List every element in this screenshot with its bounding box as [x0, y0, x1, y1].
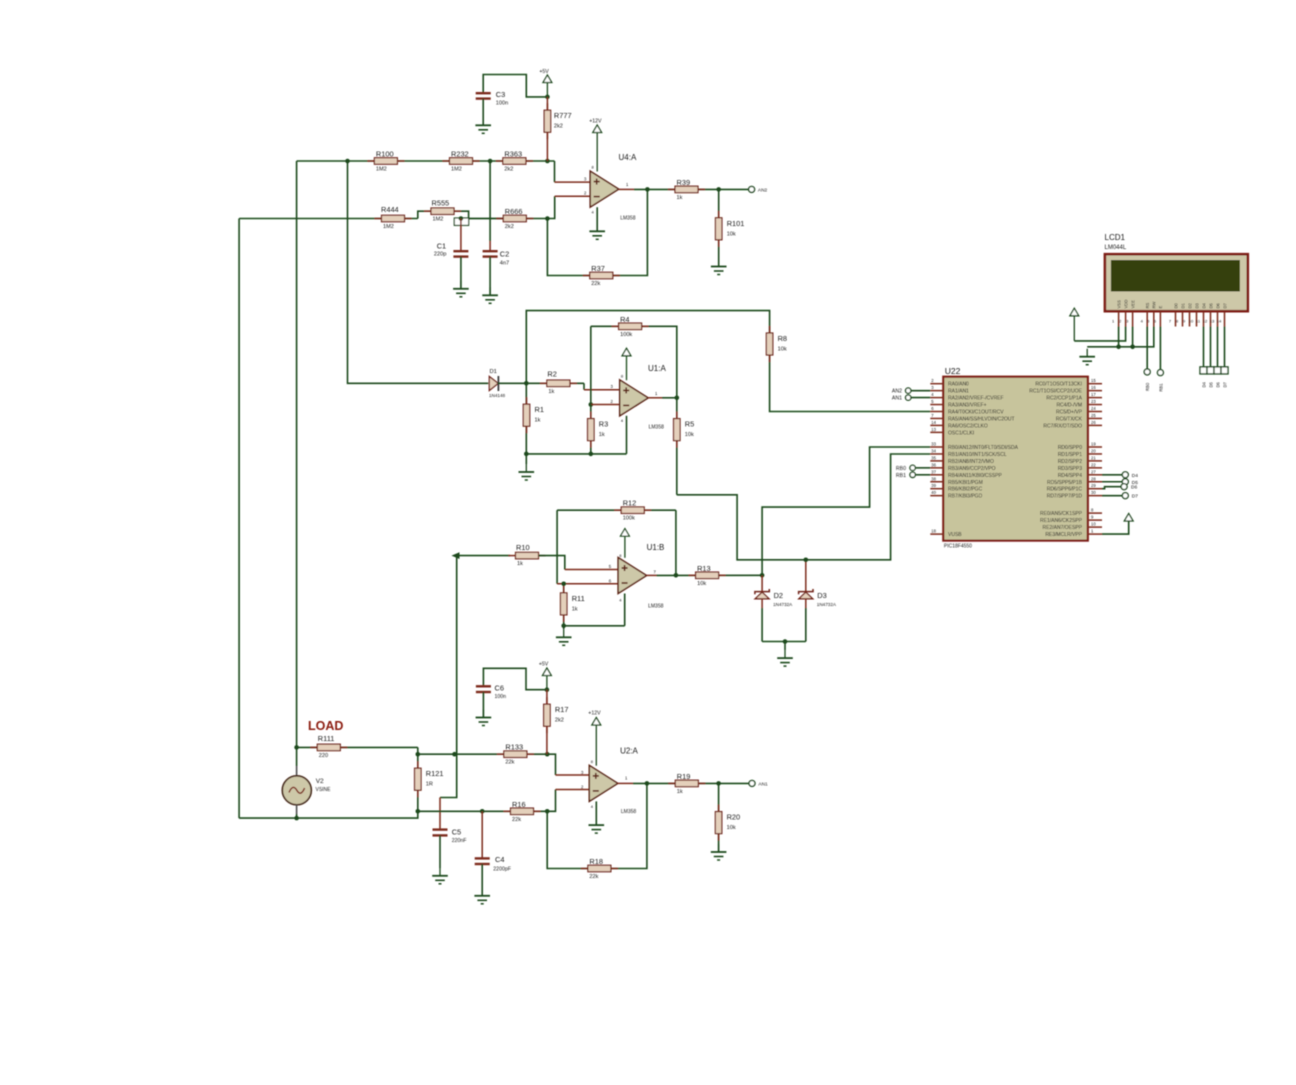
svg-text:D2: D2 [1187, 302, 1192, 308]
svg-text:VUSB: VUSB [948, 532, 962, 538]
svg-text:RB0/AN12/INT0/FLT0/SDI/SDA: RB0/AN12/INT0/FLT0/SDI/SDA [948, 445, 1019, 451]
svg-text:13: 13 [931, 427, 936, 432]
svg-text:AN2: AN2 [758, 187, 768, 193]
svg-text:PIC18F4550: PIC18F4550 [944, 544, 972, 550]
svg-text:R101: R101 [727, 219, 745, 228]
svg-text:C6: C6 [495, 684, 504, 693]
svg-text:4n7: 4n7 [500, 261, 509, 267]
svg-text:28: 28 [1091, 476, 1096, 481]
svg-text:22k: 22k [589, 874, 598, 880]
svg-text:D6: D6 [1216, 381, 1221, 387]
svg-text:R555: R555 [432, 199, 450, 208]
svg-text:RA1/AN1: RA1/AN1 [948, 389, 969, 395]
svg-text:VSINE: VSINE [316, 787, 332, 793]
svg-text:OSC1/CLKI: OSC1/CLKI [948, 430, 974, 436]
svg-text:R232: R232 [451, 150, 469, 159]
svg-text:RA2/AN2/VREF-/CVREF: RA2/AN2/VREF-/CVREF [948, 396, 1004, 402]
svg-text:+12V: +12V [588, 711, 601, 717]
svg-text:R100: R100 [376, 150, 394, 159]
svg-text:D6: D6 [1131, 485, 1137, 491]
svg-text:RB0: RB0 [896, 466, 906, 472]
svg-text:RD4/SPP4: RD4/SPP4 [1058, 473, 1082, 479]
svg-text:C5: C5 [452, 828, 461, 837]
svg-text:D2: D2 [774, 591, 783, 600]
svg-text:1N4732A: 1N4732A [817, 602, 837, 607]
svg-text:RD7/SPP7/P1D: RD7/SPP7/P1D [1047, 494, 1083, 500]
svg-text:33: 33 [931, 442, 936, 447]
svg-text:RC1/T1OSI/CCP2/UOE: RC1/T1OSI/CCP2/UOE [1029, 389, 1082, 395]
svg-text:RB1: RB1 [1158, 383, 1163, 392]
svg-text:LM358: LM358 [621, 809, 637, 815]
svg-text:220nF: 220nF [452, 838, 467, 844]
svg-text:2k2: 2k2 [505, 224, 514, 230]
svg-text:100k: 100k [620, 332, 632, 338]
svg-text:R12: R12 [623, 499, 637, 508]
svg-text:23: 23 [1091, 399, 1096, 404]
svg-text:R39: R39 [677, 178, 691, 187]
svg-text:15: 15 [1091, 378, 1096, 383]
svg-text:2k2: 2k2 [554, 124, 563, 130]
svg-text:RB0: RB0 [1145, 382, 1150, 391]
svg-text:RC4/D-/VM: RC4/D-/VM [1056, 403, 1082, 409]
svg-text:R5: R5 [685, 420, 694, 429]
svg-text:LCD1: LCD1 [1105, 233, 1126, 242]
svg-text:1R: 1R [426, 782, 433, 788]
svg-text:25: 25 [1091, 413, 1096, 418]
svg-text:R11: R11 [572, 594, 585, 603]
svg-text:10k: 10k [778, 347, 787, 353]
svg-text:RA5/AN4/SS/HLVDIN/C2OUT: RA5/AN4/SS/HLVDIN/C2OUT [948, 416, 1015, 422]
svg-text:VDD: VDD [1123, 300, 1128, 309]
svg-text:1M2: 1M2 [383, 224, 394, 230]
svg-text:D3: D3 [817, 591, 826, 600]
svg-text:+5V: +5V [539, 69, 549, 75]
svg-text:100n: 100n [496, 101, 508, 107]
svg-text:RS: RS [1145, 302, 1150, 308]
svg-text:RB1: RB1 [896, 473, 906, 479]
svg-text:RC2/CCP1/P1A: RC2/CCP1/P1A [1046, 396, 1082, 402]
svg-text:C3: C3 [496, 90, 505, 99]
svg-text:29: 29 [1091, 483, 1096, 488]
svg-text:RD5/SPP5/P1B: RD5/SPP5/P1B [1047, 480, 1083, 486]
svg-text:R37: R37 [591, 264, 605, 273]
svg-text:R16: R16 [512, 800, 526, 809]
svg-text:RD2/SPP2: RD2/SPP2 [1058, 459, 1082, 465]
svg-text:R777: R777 [554, 111, 572, 120]
svg-text:37: 37 [931, 469, 936, 474]
svg-text:R19: R19 [677, 772, 691, 781]
svg-text:2k2: 2k2 [555, 718, 564, 724]
svg-text:LM358: LM358 [649, 425, 665, 431]
svg-text:C4: C4 [495, 855, 504, 864]
svg-text:21: 21 [1091, 455, 1096, 460]
svg-text:R111: R111 [318, 734, 335, 743]
svg-text:U1:A: U1:A [648, 364, 666, 373]
svg-text:10k: 10k [697, 581, 706, 587]
svg-text:10: 10 [1091, 522, 1096, 527]
svg-text:1k: 1k [599, 432, 605, 438]
svg-text:18: 18 [931, 529, 936, 534]
svg-text:1k: 1k [548, 389, 554, 395]
svg-text:R18: R18 [589, 857, 603, 866]
svg-text:40: 40 [931, 490, 936, 495]
svg-text:RA4/T0CKI/C1OUT/RCV: RA4/T0CKI/C1OUT/RCV [948, 410, 1004, 416]
svg-text:16: 16 [1091, 385, 1096, 390]
svg-text:RE0/AN5/CK1SPP: RE0/AN5/CK1SPP [1040, 511, 1083, 517]
svg-text:D6: D6 [1215, 302, 1220, 308]
svg-text:D5: D5 [1209, 381, 1214, 387]
svg-text:100k: 100k [623, 516, 635, 522]
svg-text:12: 12 [1203, 319, 1208, 324]
svg-text:22k: 22k [591, 281, 600, 287]
svg-text:LM044L: LM044L [1105, 245, 1127, 251]
svg-text:2200pF: 2200pF [493, 867, 511, 873]
svg-text:100n: 100n [495, 694, 507, 700]
svg-text:LM358: LM358 [648, 604, 664, 610]
svg-text:10k: 10k [727, 825, 736, 831]
svg-text:R13: R13 [697, 564, 711, 573]
svg-text:1M2: 1M2 [451, 167, 462, 173]
svg-text:D1: D1 [1180, 302, 1185, 308]
svg-text:D4: D4 [1201, 302, 1206, 308]
svg-text:1M2: 1M2 [376, 167, 387, 173]
svg-text:R666: R666 [505, 207, 523, 216]
svg-text:30: 30 [1091, 490, 1096, 495]
svg-text:17: 17 [1091, 392, 1096, 397]
svg-text:+12V: +12V [589, 119, 602, 125]
svg-text:D4: D4 [1132, 473, 1138, 479]
svg-text:RB7/KBI3/PGD: RB7/KBI3/PGD [948, 494, 983, 500]
svg-text:RB4/AN11/KBI0/CSSPP: RB4/AN11/KBI0/CSSPP [948, 473, 1002, 479]
svg-text:1k: 1k [677, 789, 683, 795]
svg-text:220: 220 [319, 753, 328, 759]
svg-text:34: 34 [931, 448, 936, 453]
svg-text:R8: R8 [778, 334, 787, 343]
svg-text:RB3/AN9/CCP2/VPO: RB3/AN9/CCP2/VPO [948, 466, 996, 472]
svg-text:22: 22 [1091, 462, 1096, 467]
svg-text:1k: 1k [517, 561, 523, 567]
svg-text:36: 36 [931, 462, 936, 467]
svg-text:24: 24 [1091, 406, 1096, 411]
svg-text:27: 27 [1091, 469, 1096, 474]
svg-text:R3: R3 [599, 420, 608, 429]
svg-text:LM358: LM358 [620, 216, 636, 222]
svg-text:RD3/SPP3: RD3/SPP3 [1058, 466, 1082, 472]
svg-text:VEE: VEE [1130, 300, 1135, 309]
svg-text:R1: R1 [535, 405, 544, 414]
svg-text:38: 38 [931, 476, 936, 481]
svg-text:RC7/RX/DT/SDO: RC7/RX/DT/SDO [1043, 423, 1082, 429]
svg-text:10: 10 [1189, 319, 1194, 324]
svg-text:RD0/SPP0: RD0/SPP0 [1058, 445, 1082, 451]
svg-text:R444: R444 [381, 205, 399, 214]
svg-text:RA6/OSC2/CLKO: RA6/OSC2/CLKO [948, 423, 988, 429]
svg-text:10k: 10k [685, 432, 694, 438]
svg-text:1N4732A: 1N4732A [773, 602, 793, 607]
svg-text:RA3/AN3/VREF+: RA3/AN3/VREF+ [948, 403, 987, 409]
svg-text:RD1/SPP1: RD1/SPP1 [1058, 452, 1082, 458]
svg-text:R17: R17 [555, 705, 569, 714]
svg-text:RB1/AN10/INT1/SCK/SCL: RB1/AN10/INT1/SCK/SCL [948, 452, 1007, 458]
svg-text:V2: V2 [316, 778, 324, 785]
svg-text:AN1: AN1 [758, 781, 768, 787]
svg-text:D7: D7 [1222, 302, 1227, 308]
svg-text:19: 19 [1091, 442, 1096, 447]
svg-text:13: 13 [1210, 319, 1215, 324]
svg-text:D0: D0 [1173, 302, 1178, 308]
svg-text:RB2/AN8/INT2/VMO: RB2/AN8/INT2/VMO [948, 459, 994, 465]
svg-text:RE2/AN7/OESPP: RE2/AN7/OESPP [1043, 525, 1083, 531]
svg-text:RC0/T1OSO/T13CKI: RC0/T1OSO/T13CKI [1035, 382, 1082, 388]
svg-text:22k: 22k [505, 760, 514, 766]
svg-text:RD6/SPP6/P1C: RD6/SPP6/P1C [1047, 487, 1083, 493]
svg-text:U1:B: U1:B [647, 543, 665, 552]
svg-text:R10: R10 [516, 543, 530, 552]
svg-text:2k2: 2k2 [504, 167, 513, 173]
svg-text:1k: 1k [572, 606, 578, 612]
svg-text:14: 14 [931, 420, 936, 425]
svg-text:C1: C1 [437, 242, 446, 251]
svg-text:R4: R4 [620, 315, 629, 324]
svg-text:D7: D7 [1223, 381, 1228, 387]
svg-text:14: 14 [1217, 319, 1222, 324]
svg-text:35: 35 [931, 455, 936, 460]
svg-text:RC5/D+/VP: RC5/D+/VP [1056, 410, 1083, 416]
svg-text:U2:A: U2:A [620, 747, 638, 756]
svg-text:AN1: AN1 [892, 396, 902, 402]
svg-text:39: 39 [931, 483, 936, 488]
svg-text:VSS: VSS [1116, 300, 1121, 309]
svg-text:C2: C2 [500, 250, 509, 259]
svg-text:D5: D5 [1208, 302, 1213, 308]
svg-text:U22: U22 [945, 366, 961, 376]
svg-text:1N4148: 1N4148 [489, 393, 506, 398]
svg-text:1M2: 1M2 [433, 217, 444, 223]
svg-text:R133: R133 [505, 743, 523, 752]
svg-text:RB5/KBI1/PGM: RB5/KBI1/PGM [948, 480, 983, 486]
svg-text:D7: D7 [1132, 494, 1138, 500]
svg-text:D1: D1 [490, 369, 497, 375]
svg-text:RB6/KBI2/PGC: RB6/KBI2/PGC [948, 487, 983, 493]
svg-text:E: E [1158, 306, 1163, 309]
svg-text:D3: D3 [1194, 302, 1199, 308]
svg-text:22k: 22k [512, 817, 521, 823]
svg-text:+5V: +5V [539, 662, 549, 668]
svg-text:R2: R2 [547, 370, 556, 379]
svg-text:RW: RW [1152, 302, 1157, 309]
svg-text:1k: 1k [677, 195, 683, 201]
svg-text:1k: 1k [535, 418, 541, 424]
svg-text:U4:A: U4:A [619, 153, 637, 162]
svg-text:220p: 220p [434, 252, 446, 258]
svg-text:D4: D4 [1202, 381, 1207, 387]
svg-text:R20: R20 [727, 813, 741, 822]
svg-text:RC6/TX/CK: RC6/TX/CK [1056, 416, 1083, 422]
svg-text:26: 26 [1091, 420, 1096, 425]
svg-text:AN2: AN2 [892, 389, 902, 395]
svg-text:RA0/AN0: RA0/AN0 [948, 382, 969, 388]
svg-text:20: 20 [1091, 448, 1096, 453]
svg-text:RE1/AN6/CK2SPP: RE1/AN6/CK2SPP [1040, 518, 1083, 524]
svg-text:R363: R363 [504, 150, 522, 159]
svg-text:10k: 10k [727, 231, 736, 237]
svg-text:R121: R121 [426, 769, 444, 778]
svg-text:RE3/MCLR/VPP: RE3/MCLR/VPP [1045, 532, 1082, 538]
svg-text:LOAD: LOAD [308, 719, 343, 733]
